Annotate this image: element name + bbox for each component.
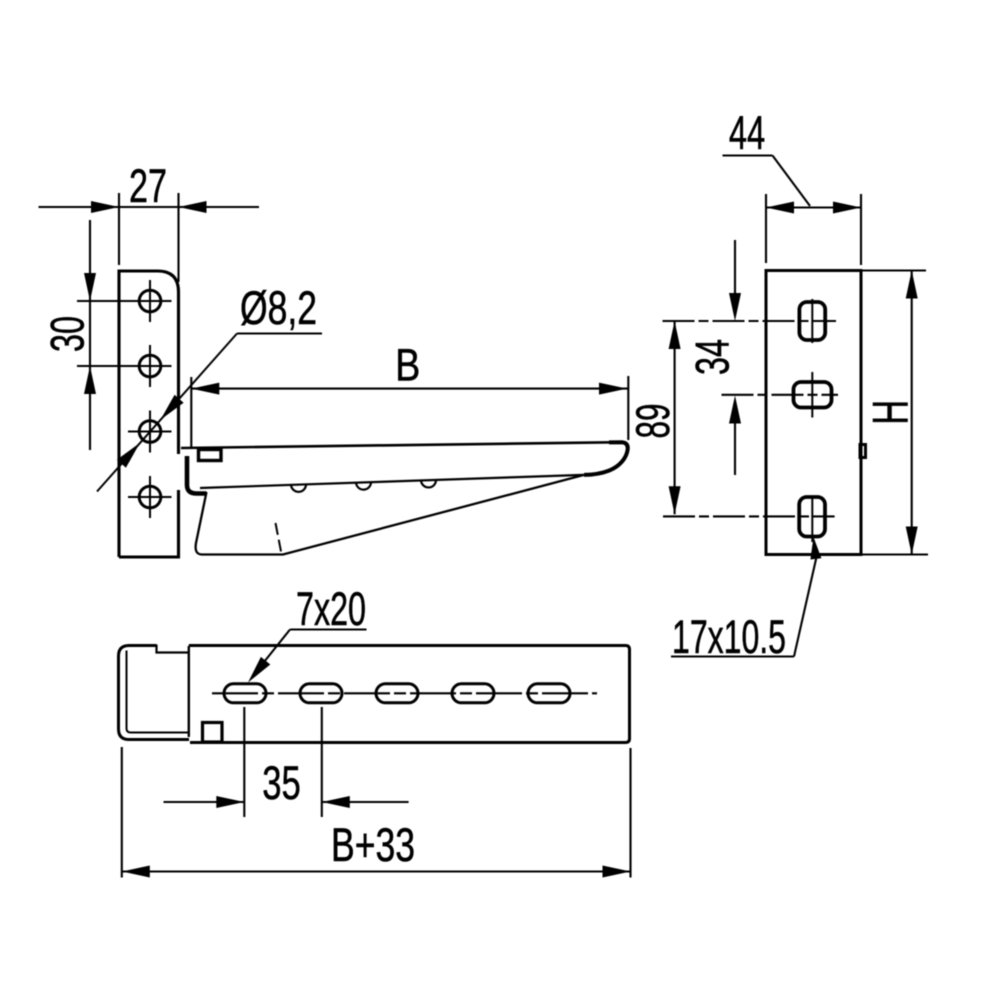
- top slot centerlines: [663, 320, 837, 322]
- arm gusset triangle (bottom taper): [196, 475, 584, 555]
- dimension 35 (slot pitch): [164, 707, 409, 817]
- middle slot centerlines: [722, 394, 839, 396]
- svg-text:30: 30: [41, 316, 94, 352]
- slot 1 (7x20): [224, 684, 266, 703]
- drain notch 1 (half circle under flange): [291, 484, 306, 492]
- plate section top notch: [157, 645, 189, 653]
- weld tab on right edge: [860, 445, 866, 458]
- slot 2: [300, 684, 342, 703]
- plate section (top view, channel): [119, 646, 190, 740]
- bend line tick (dashed): [276, 523, 282, 552]
- dimension 27 (plate width): [39, 193, 260, 282]
- top slot 17x10.5 (vertical): [799, 302, 825, 340]
- svg-text:34: 34: [685, 339, 738, 375]
- slot 3: [376, 684, 418, 703]
- bottom slot centerlines: [663, 515, 835, 517]
- plate section inner wall lines: [127, 651, 189, 733]
- dimension 34 (slot pitch): [734, 240, 736, 475]
- svg-text:Ø8,2: Ø8,2: [240, 281, 317, 334]
- bend fillet at arm root (thick J curve): [187, 456, 207, 494]
- dimension 89 (slot span): [674, 321, 676, 514]
- arm outline (top view): [189, 646, 630, 743]
- hole 1 (side view, Ø8.2): [77, 280, 172, 322]
- hole 2 (side view): [77, 345, 172, 387]
- svg-text:H: H: [863, 400, 919, 425]
- drain notch 2: [356, 482, 371, 490]
- middle slot 17x10.5 (horizontal): [794, 382, 832, 408]
- dimension B (arm length): [191, 376, 628, 447]
- back plate rectangle: [766, 271, 861, 555]
- drain notch 3: [421, 480, 436, 488]
- svg-text:89: 89: [626, 404, 679, 439]
- hole 3 (side view): [128, 411, 172, 453]
- dimension H (plate height): [862, 271, 928, 555]
- slots centre line (top view): [212, 692, 597, 694]
- slot 5: [528, 684, 570, 703]
- wall plate outline (side view): [119, 271, 179, 557]
- slot 4: [452, 684, 494, 703]
- weld tab (side view): [199, 450, 222, 461]
- hole 4 (side view): [128, 476, 172, 518]
- plate/arm boundary line (top view): [188, 646, 190, 737]
- svg-text:27: 27: [129, 159, 167, 212]
- dimension 44 (plate width): [766, 194, 861, 265]
- svg-text:7x20: 7x20: [296, 582, 366, 635]
- arm flange bottom edge line: [200, 475, 584, 488]
- svg-text:44: 44: [729, 106, 765, 159]
- svg-text:B: B: [395, 340, 420, 391]
- weld tab (top view): [203, 723, 223, 743]
- svg-text:35: 35: [262, 756, 301, 809]
- dimension B+33 (overall length): [122, 747, 631, 878]
- arm top edge (side view): [181, 442, 622, 448]
- bottom slot 17x10.5 (vertical): [799, 497, 825, 537]
- svg-text:17x10.5: 17x10.5: [672, 610, 786, 663]
- dimension 30 (hole pitch): [89, 220, 91, 450]
- svg-text:B+33: B+33: [331, 818, 415, 871]
